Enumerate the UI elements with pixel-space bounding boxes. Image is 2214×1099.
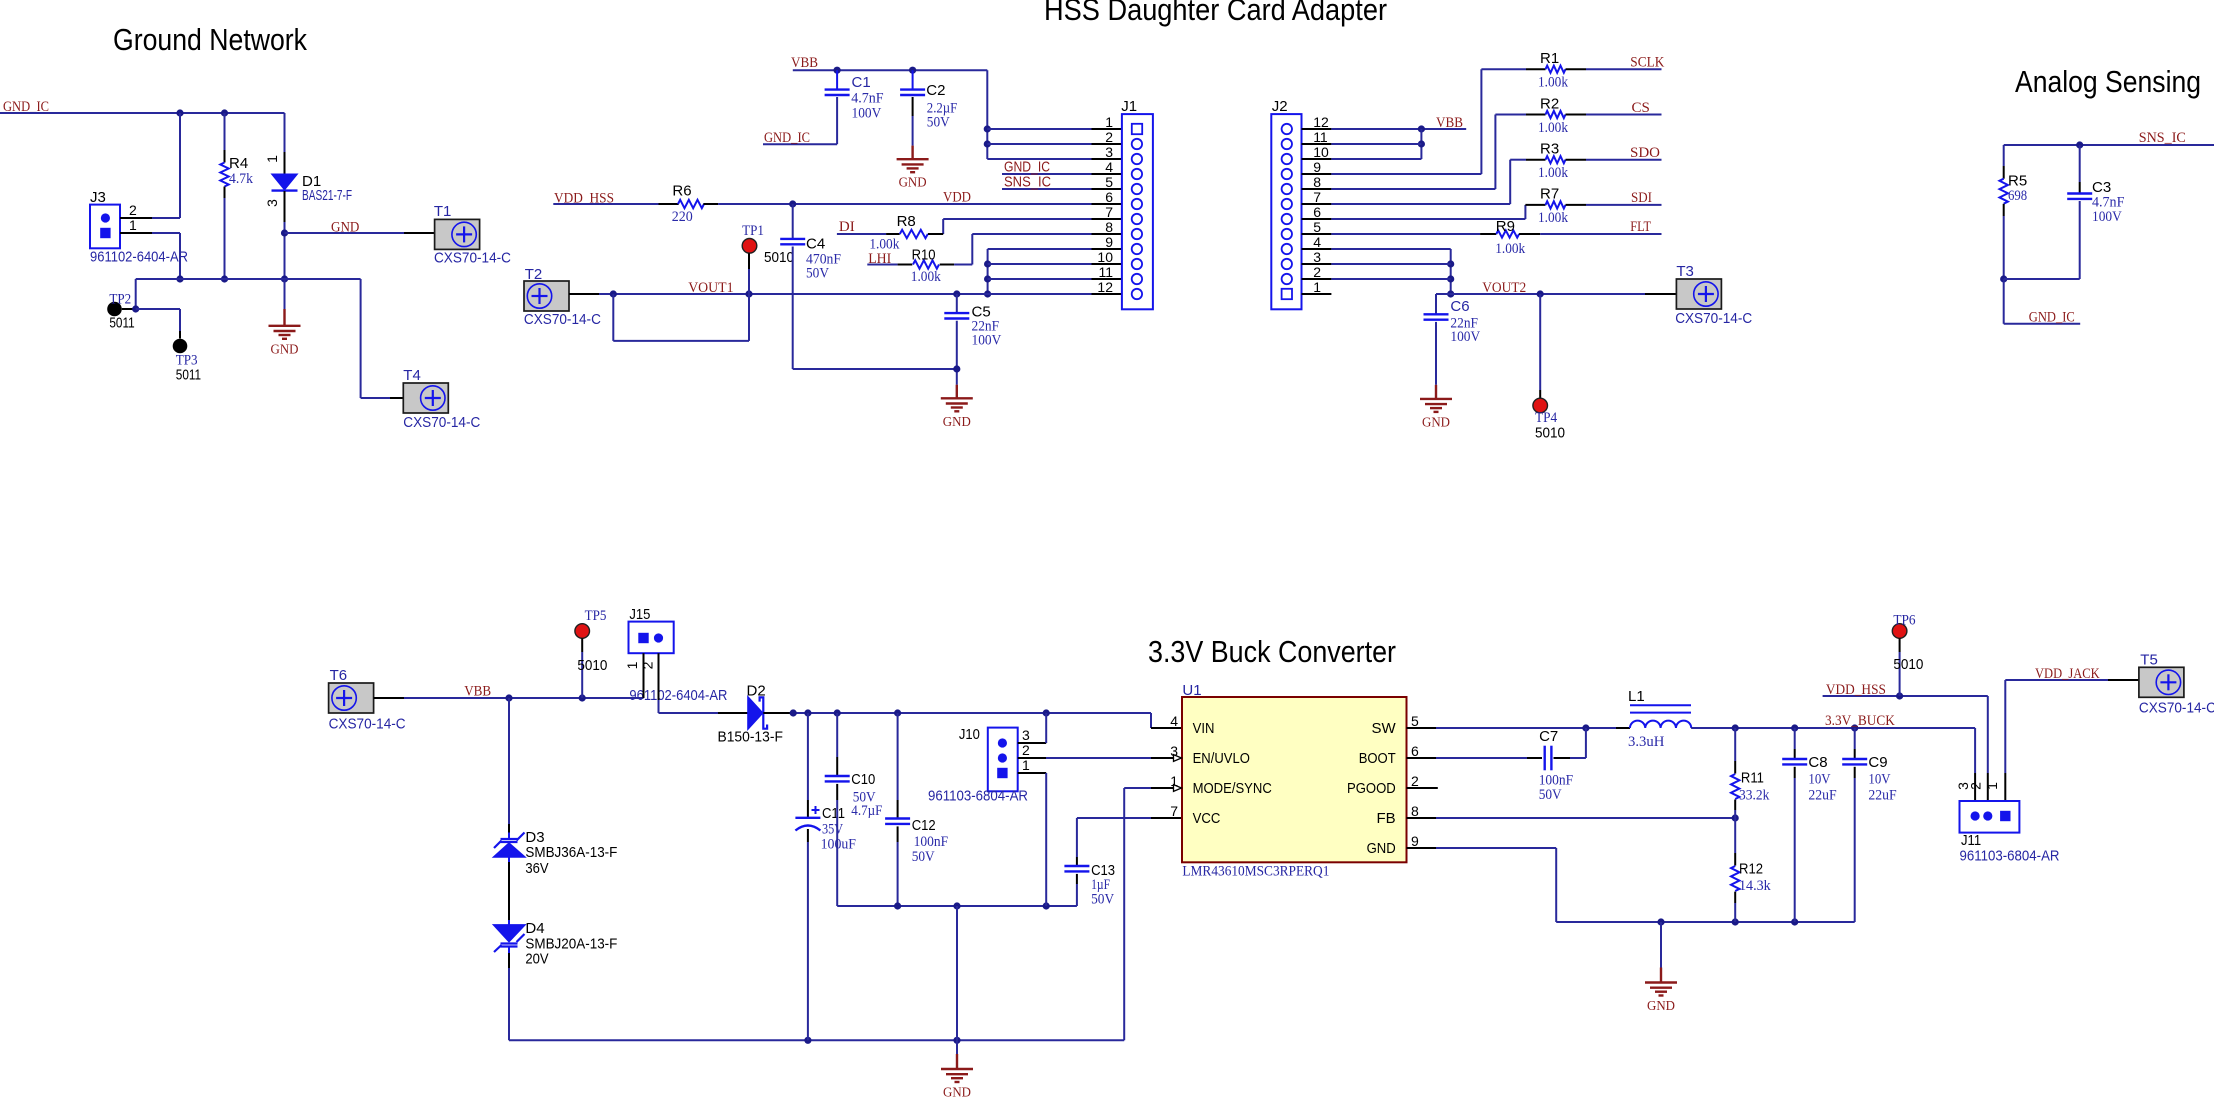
capacitor C12: [897, 713, 899, 800]
ground symbol: [911, 146, 913, 160]
svg-text:GND_IC: GND_IC: [2029, 310, 2075, 326]
svg-text:VDD: VDD: [943, 190, 971, 206]
wire J2 pin2 row: [1331, 278, 1450, 280]
svg-text:R6: R6: [672, 183, 691, 200]
svg-text:4.7k: 4.7k: [229, 171, 253, 187]
svg-text:L1: L1: [1628, 688, 1645, 705]
svg-text:1: 1: [264, 155, 280, 163]
svg-text:20V: 20V: [525, 951, 548, 968]
wire TP2 to TP3: [136, 308, 180, 310]
svg-text:CS: CS: [1632, 100, 1650, 116]
svg-text:GND: GND: [1367, 840, 1396, 857]
svg-text:1.00k: 1.00k: [1538, 120, 1568, 136]
svg-text:50V: 50V: [927, 115, 950, 131]
svg-text:J10: J10: [959, 726, 980, 743]
svg-text:7: 7: [1170, 803, 1178, 819]
svg-text:1: 1: [1313, 279, 1321, 295]
svg-text:2: 2: [1313, 264, 1321, 280]
svg-text:1.00k: 1.00k: [1495, 241, 1525, 257]
svg-text:1.00k: 1.00k: [1538, 75, 1568, 91]
wire VIN rail: [793, 712, 1151, 714]
capacitor C10: [836, 713, 838, 757]
svg-text:J2: J2: [1272, 98, 1288, 115]
resistor R5: [2003, 145, 2005, 166]
wire VDD to J1 pin6: [718, 203, 1091, 205]
svg-text:2: 2: [1411, 773, 1419, 789]
wire pins 9-12 tie: [987, 249, 989, 294]
wire bus to TP2: [135, 279, 137, 309]
svg-text:R2: R2: [1540, 96, 1559, 113]
svg-text:GND: GND: [899, 176, 927, 191]
junction: [176, 109, 183, 116]
connector J15: [629, 622, 674, 654]
svg-text:961103-6804-AR: 961103-6804-AR: [1960, 848, 2060, 865]
wire DI: [837, 233, 886, 235]
ground symbol: [284, 279, 286, 309]
wire J3 pin1 stub: [120, 232, 152, 234]
svg-text:T3: T3: [1676, 263, 1694, 280]
svg-text:3: 3: [264, 199, 280, 207]
wire J2 pin7 to R3: [1331, 203, 1510, 205]
wire MODE stub: [1151, 787, 1173, 789]
svg-text:8: 8: [1313, 174, 1321, 190]
svg-text:11: 11: [1098, 264, 1113, 280]
capacitor C6: [1435, 294, 1437, 314]
svg-text:5011: 5011: [109, 315, 134, 332]
testpoint TP5: [575, 624, 590, 639]
testpoint T5: [2139, 667, 2184, 697]
testpoint T4: [403, 383, 448, 413]
inductor L1: [1616, 727, 1630, 729]
svg-text:6: 6: [1313, 204, 1321, 220]
svg-text:J3: J3: [90, 189, 106, 206]
wire loop below T2: [612, 294, 614, 341]
svg-text:D4: D4: [525, 920, 544, 937]
wire VBB from J2 pin12: [1331, 128, 1466, 130]
U1 right stubs: [1407, 727, 1437, 729]
svg-text:PGOOD: PGOOD: [1347, 780, 1396, 797]
wire ground bus: [136, 278, 361, 280]
svg-text:5: 5: [1313, 219, 1321, 235]
svg-text:C8: C8: [1808, 754, 1827, 771]
svg-text:1: 1: [1105, 114, 1113, 130]
capacitor C7: [1436, 757, 1527, 759]
svg-text:C4: C4: [806, 236, 825, 253]
wire J11 pin1: [2004, 680, 2006, 773]
svg-text:VDD_JACK: VDD_JACK: [2035, 666, 2100, 682]
wire J2 pin5 / FLT: [1331, 233, 1480, 235]
testpoint TP3: [173, 339, 188, 354]
resistor R2: [1546, 111, 1566, 118]
diode D3 SMBJ36A-13-F: [508, 698, 510, 824]
diode D1 BAS21-7-F: [284, 113, 286, 152]
svg-text:100uF: 100uF: [821, 837, 856, 853]
wire GND pin9: [1436, 847, 1556, 849]
svg-text:C1: C1: [852, 74, 871, 91]
wire J10 pin2 to EN: [1046, 757, 1151, 759]
wire to GND_IC: [2003, 279, 2005, 324]
wire VBB rail: [793, 69, 988, 71]
wire VCC: [1077, 817, 1151, 819]
svg-text:R12: R12: [1739, 861, 1763, 878]
wire bottom rail: [509, 1039, 1124, 1041]
svg-text:5010: 5010: [1893, 656, 1923, 673]
resistor R11: [1734, 728, 1736, 761]
svg-text:GND: GND: [943, 1086, 971, 1099]
svg-text:5: 5: [1105, 174, 1113, 190]
svg-text:100V: 100V: [1450, 329, 1480, 345]
svg-text:SDO: SDO: [1630, 145, 1660, 161]
wire J1 pin10 row: [988, 263, 1092, 265]
svg-text:10V: 10V: [1808, 772, 1830, 788]
svg-text:1.00k: 1.00k: [1538, 165, 1568, 181]
svg-text:EN/UVLO: EN/UVLO: [1193, 750, 1250, 767]
wire pins 12-11-10 tie: [1420, 129, 1422, 159]
svg-text:GND: GND: [1647, 999, 1675, 1014]
svg-text:T4: T4: [403, 367, 421, 384]
svg-text:Analog Sensing: Analog Sensing: [2015, 64, 2201, 99]
svg-text:10V: 10V: [1868, 772, 1890, 788]
svg-text:100nF: 100nF: [914, 834, 949, 850]
svg-text:4: 4: [1170, 713, 1178, 729]
svg-text:961103-6804-AR: 961103-6804-AR: [928, 788, 1028, 805]
svg-text:2: 2: [1022, 742, 1030, 758]
wire J1 pin8 row: [972, 233, 1091, 235]
svg-text:50V: 50V: [1539, 787, 1562, 803]
svg-text:10: 10: [1313, 144, 1329, 160]
svg-text:9: 9: [1313, 159, 1321, 175]
svg-text:J1: J1: [1121, 98, 1137, 115]
capacitor C5: [956, 294, 958, 313]
svg-text:35V: 35V: [822, 822, 843, 838]
wire VOUT2 row: [1436, 293, 1645, 295]
svg-text:1.00k: 1.00k: [1538, 210, 1568, 226]
svg-text:C11: C11: [822, 805, 845, 822]
svg-text:33.2k: 33.2k: [1739, 788, 1770, 804]
svg-text:VBB: VBB: [1436, 115, 1463, 131]
svg-text:5010: 5010: [577, 657, 607, 674]
svg-text:2: 2: [1968, 782, 1984, 790]
resistor R12: [1734, 818, 1736, 853]
capacitor C3: [2079, 145, 2081, 182]
svg-text:VIN: VIN: [1193, 720, 1215, 737]
svg-text:R5: R5: [2008, 173, 2027, 190]
svg-text:2: 2: [639, 661, 655, 669]
svg-text:6: 6: [1411, 743, 1419, 759]
svg-text:12: 12: [1313, 114, 1329, 130]
svg-text:4: 4: [1105, 159, 1113, 175]
svg-text:961102-6404-AR: 961102-6404-AR: [90, 249, 188, 266]
svg-text:100V: 100V: [972, 333, 1002, 349]
svg-text:MODE/SYNC: MODE/SYNC: [1193, 780, 1272, 797]
svg-text:9: 9: [1105, 234, 1113, 250]
svg-text:11: 11: [1313, 129, 1328, 145]
resistor R8: [886, 233, 900, 235]
svg-text:8: 8: [1411, 803, 1419, 819]
wire J2 pin9 to R1: [1331, 173, 1481, 175]
connector J10: [988, 728, 1018, 792]
svg-text:CXS70-14-C: CXS70-14-C: [434, 250, 511, 267]
wire R5-C3 bottom: [2004, 278, 2080, 280]
testpoint TP4: [1539, 294, 1541, 390]
svg-text:GND: GND: [1422, 415, 1450, 430]
svg-text:C6: C6: [1450, 298, 1469, 315]
ground symbol: [1435, 385, 1437, 399]
wire J15 pin1 to VBB: [643, 653, 645, 698]
svg-text:4.7nF: 4.7nF: [851, 91, 883, 107]
capacitor C4: [792, 204, 794, 239]
svg-text:4: 4: [1313, 234, 1321, 250]
svg-text:C9: C9: [1868, 754, 1887, 771]
svg-text:5: 5: [1411, 713, 1419, 729]
wire GND_IC rail: [0, 112, 285, 114]
svg-text:VDD_HSS: VDD_HSS: [1826, 682, 1886, 698]
svg-text:100V: 100V: [852, 106, 882, 122]
svg-text:VBB: VBB: [464, 684, 491, 700]
resistor R1: [1546, 66, 1566, 73]
svg-text:C12: C12: [912, 817, 936, 834]
svg-text:C3: C3: [2092, 179, 2111, 196]
ground symbol: [1660, 922, 1662, 968]
wire to J3 pin 2: [179, 113, 181, 218]
wire J11 pin2: [1987, 696, 1989, 773]
capacitor C11 electrolytic: [807, 713, 809, 800]
svg-text:GND: GND: [271, 342, 299, 357]
svg-text:T1: T1: [434, 203, 452, 220]
svg-text:36V: 36V: [525, 860, 548, 877]
wire FB: [1436, 817, 1735, 819]
svg-text:HSS Daughter Card Adapter: HSS Daughter Card Adapter: [1044, 0, 1387, 27]
capacitor C13: [1076, 818, 1078, 857]
wire GND_IC from C1: [763, 143, 837, 145]
wire J1 pin11 row: [988, 278, 1092, 280]
svg-text:2: 2: [129, 202, 137, 218]
svg-text:T5: T5: [2140, 652, 2158, 669]
svg-text:VOUT2: VOUT2: [1482, 280, 1526, 296]
wire J2 pin8 to R2: [1331, 188, 1495, 190]
svg-text:TP2: TP2: [109, 292, 131, 308]
svg-text:5011: 5011: [176, 367, 201, 384]
svg-text:VOUT1: VOUT1: [688, 280, 733, 296]
svg-text:J11: J11: [1961, 832, 1981, 849]
wire C4 bottom to C5 bottom: [793, 368, 957, 370]
resistor R7: [1546, 201, 1566, 208]
svg-text:1.00k: 1.00k: [911, 269, 941, 285]
svg-text:50V: 50V: [806, 266, 829, 282]
capacitor C8: [1794, 728, 1796, 749]
resistor R3: [1546, 156, 1566, 163]
svg-text:T2: T2: [525, 266, 543, 283]
svg-text:698: 698: [2008, 188, 2027, 204]
svg-text:T6: T6: [330, 667, 348, 684]
testpoint T6: [329, 683, 374, 713]
svg-text:R4: R4: [229, 155, 248, 172]
resistor R10: [898, 264, 913, 266]
svg-text:50V: 50V: [1091, 892, 1114, 908]
svg-text:12: 12: [1097, 279, 1113, 295]
svg-text:SNS_IC: SNS_IC: [1004, 174, 1051, 191]
wire J10 pin3 to VIN: [1045, 713, 1047, 743]
connector J1: [1122, 114, 1153, 309]
wire LHI: [867, 264, 897, 266]
wire gnd rail right: [1556, 921, 1855, 923]
svg-text:14.3k: 14.3k: [1739, 878, 1771, 894]
svg-text:1: 1: [624, 661, 640, 669]
wire 3.3V_BUCK rail: [1691, 727, 1975, 729]
svg-text:GND_IC: GND_IC: [764, 130, 810, 146]
capacitor C9: [1854, 728, 1856, 749]
svg-text:3: 3: [1022, 727, 1030, 743]
svg-text:R1: R1: [1540, 50, 1559, 67]
wire J3 pin1 to bus: [179, 233, 181, 279]
wire VOUT1 row / J1 pin12: [599, 293, 1092, 295]
capacitor C2: [912, 70, 914, 89]
wire J2 pin6 to R7: [1331, 218, 1525, 220]
svg-text:DI: DI: [839, 219, 855, 235]
wire gnd vertical: [956, 906, 958, 1040]
wire MODE/SYNC to rail: [1123, 788, 1125, 1040]
svg-text:6: 6: [1105, 189, 1113, 205]
svg-text:1: 1: [129, 217, 137, 233]
svg-text:2: 2: [1105, 129, 1113, 145]
svg-text:Ground Network: Ground Network: [113, 22, 307, 57]
svg-text:CXS70-14-C: CXS70-14-C: [329, 716, 406, 733]
ground symbol: [956, 1040, 958, 1054]
svg-text:CXS70-14-C: CXS70-14-C: [403, 414, 480, 431]
wire VBB rail: [374, 697, 404, 699]
svg-text:SCLK: SCLK: [1630, 55, 1664, 71]
wire J1 pin5 SNS_IC: [1002, 188, 1092, 190]
svg-text:3: 3: [1313, 249, 1321, 265]
connector J3: [90, 205, 120, 249]
svg-text:1: 1: [1022, 757, 1030, 773]
svg-text:FB: FB: [1377, 810, 1396, 827]
svg-text:SDI: SDI: [1631, 190, 1652, 206]
testpoint TP2: [107, 302, 122, 317]
wire VBB to J1 pins 1-3: [986, 70, 988, 159]
svg-text:5010: 5010: [764, 249, 794, 266]
wire SNS_IC: [2004, 144, 2214, 146]
svg-text:5010: 5010: [1535, 425, 1565, 442]
svg-text:FLT: FLT: [1630, 219, 1651, 235]
wire J2 pin stubs: [1302, 128, 1332, 130]
svg-text:7: 7: [1313, 189, 1321, 205]
svg-text:VCC: VCC: [1193, 810, 1221, 827]
wire J1 pin7 row: [943, 218, 1091, 220]
svg-text:VBB: VBB: [791, 55, 818, 71]
svg-text:SW: SW: [1372, 720, 1397, 737]
capacitor C1: [836, 70, 838, 89]
svg-text:22uF: 22uF: [1868, 788, 1896, 804]
svg-text:10: 10: [1097, 249, 1113, 265]
svg-text:B150-13-F: B150-13-F: [718, 729, 783, 746]
svg-text:BOOT: BOOT: [1359, 750, 1396, 767]
svg-text:C10: C10: [851, 771, 875, 788]
testpoint T1: [435, 219, 480, 249]
wire SW to L1: [1436, 727, 1630, 729]
svg-text:22uF: 22uF: [1808, 788, 1836, 804]
svg-text:CXS70-14-C: CXS70-14-C: [524, 311, 601, 328]
wire J1 pin4 GND_IC: [1002, 173, 1092, 175]
ground symbol: [956, 385, 958, 399]
svg-text:1: 1: [1984, 782, 2000, 790]
wire J1 pin9 row: [988, 248, 1092, 250]
svg-text:3.3V Buck Converter: 3.3V Buck Converter: [1148, 634, 1396, 669]
svg-text:TP1: TP1: [742, 223, 764, 239]
resistor R6: [659, 203, 679, 205]
svg-text:R8: R8: [897, 213, 916, 230]
svg-text:R3: R3: [1540, 141, 1559, 158]
wire bus to T4: [360, 279, 362, 398]
svg-text:R11: R11: [1741, 770, 1764, 787]
svg-text:C7: C7: [1539, 728, 1558, 745]
wire VDD_JACK: [2005, 679, 2108, 681]
testpoint TP6: [1892, 624, 1907, 639]
svg-text:TP5: TP5: [585, 608, 607, 624]
svg-text:U1: U1: [1182, 682, 1201, 699]
diode D4 SMBJ20A-13-F: [508, 920, 510, 925]
svg-text:TP6: TP6: [1893, 613, 1916, 629]
svg-text:9: 9: [1411, 833, 1419, 849]
svg-text:CXS70-14-C: CXS70-14-C: [1675, 310, 1752, 327]
svg-text:3.3V_BUCK: 3.3V_BUCK: [1825, 713, 1895, 729]
svg-text:3: 3: [1105, 144, 1113, 160]
svg-text:LMR43610MSC3RPERQ1: LMR43610MSC3RPERQ1: [1182, 864, 1329, 880]
wire J2 pin3 row: [1331, 263, 1450, 265]
input arrow EN: [1174, 755, 1182, 762]
svg-text:4.7µF: 4.7µF: [851, 803, 882, 819]
svg-text:8: 8: [1105, 219, 1113, 235]
connector J11: [1960, 801, 2020, 833]
svg-text:J15: J15: [629, 606, 650, 623]
wire GND to T1: [285, 232, 405, 234]
wire VDD_HSS: [1823, 695, 1988, 697]
svg-text:CXS70-14-C: CXS70-14-C: [2139, 700, 2214, 717]
svg-text:C2: C2: [926, 82, 945, 99]
IC U1 LMR43610: [1182, 697, 1407, 862]
wire J15 pin2 to D2: [658, 653, 660, 700]
testpoint T3: [1676, 279, 1721, 309]
resistor R4: [224, 113, 226, 150]
diode D2 B150-13-F: [718, 712, 748, 714]
wire J11 pin3: [1974, 728, 1976, 773]
wire mid rail: [837, 905, 1077, 907]
connector J2: [1271, 114, 1301, 309]
svg-text:GND: GND: [943, 415, 971, 430]
svg-text:SNS_IC: SNS_IC: [2139, 130, 2186, 146]
svg-text:SMBJ36A-13-F: SMBJ36A-13-F: [525, 844, 617, 861]
svg-text:R10: R10: [912, 247, 936, 264]
svg-text:3.3uH: 3.3uH: [1628, 734, 1665, 750]
input arrow MODE: [1174, 785, 1182, 792]
svg-text:R7: R7: [1540, 186, 1559, 203]
svg-text:D2: D2: [747, 683, 766, 700]
svg-text:50V: 50V: [912, 849, 935, 865]
svg-text:220: 220: [672, 209, 693, 225]
testpoint TP1: [742, 239, 757, 254]
resistor R9: [1496, 230, 1519, 237]
svg-text:7: 7: [1105, 204, 1113, 220]
testpoint T2: [524, 281, 569, 311]
svg-text:BAS21-7-F: BAS21-7-F: [302, 187, 352, 204]
wire J10 pin1 to mid rail: [1045, 773, 1047, 906]
svg-text:R9: R9: [1496, 218, 1515, 235]
svg-text:100V: 100V: [2092, 209, 2122, 225]
wire J3 pin2 stub: [120, 217, 152, 219]
wire J2 pin4 tie to VOUT2: [1331, 248, 1450, 250]
wire VDD_HSS: [553, 203, 658, 205]
